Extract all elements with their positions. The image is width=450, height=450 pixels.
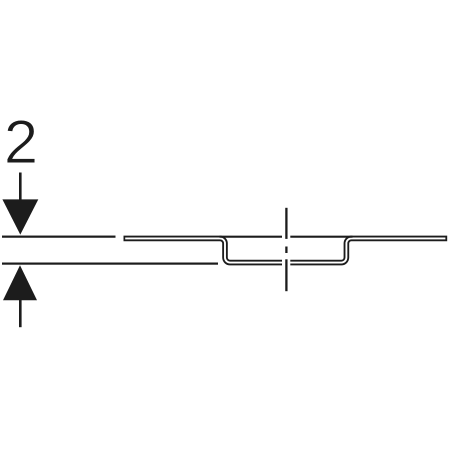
centerline dash (top) bbox=[285, 208, 287, 239]
channel rear top edge line bbox=[220, 236, 353, 238]
profile sheet outer outline bbox=[124, 238, 448, 262]
dimension arrowhead (down) bbox=[2, 199, 38, 234]
dimension arrow shaft (upper) bbox=[19, 173, 22, 201]
centerline gap mask over channel bbox=[282, 235, 290, 266]
centerline dot bbox=[285, 247, 287, 254]
profile sheet inner white core bbox=[125, 238, 445, 262]
dimension arrowhead (up) bbox=[3, 265, 37, 300]
svg-text:2: 2 bbox=[4, 108, 38, 177]
dimension arrow shaft (lower) bbox=[19, 300, 22, 327]
dimension extension line (top) bbox=[2, 236, 116, 238]
dimension extension line (bottom) bbox=[2, 263, 218, 265]
centerline dash (bottom) bbox=[285, 259, 287, 291]
